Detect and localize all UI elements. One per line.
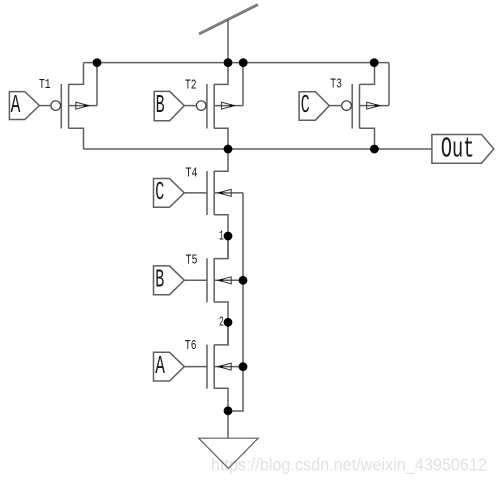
junction dot T1 bulk at VDD rail — [93, 58, 102, 67]
svg-text:1: 1 — [219, 230, 224, 245]
junction dot VDD drop / T2 drain — [224, 58, 233, 67]
wire node 1 segment (T4 source to T5 drain) — [227, 236, 229, 258]
wire node 2 segment (T5 source to T6 drain) — [227, 322, 229, 344]
wire T6 source to ground — [227, 411, 229, 438]
T3 gate bubble — [342, 101, 352, 111]
wire T2 bulk to VDD rail — [242, 63, 244, 106]
input flag B (T2 gate) — [154, 91, 184, 120]
input flag A (T1 gate) — [9, 92, 39, 120]
junction dot T2 bulk at VDD rail — [239, 58, 248, 67]
svg-text:T3: T3 — [330, 78, 342, 93]
transistor T5 (NMOS) — [207, 236, 243, 322]
wire input C to T3 gate — [329, 105, 341, 107]
T2 gate bubble — [196, 101, 206, 111]
transistor T6 (NMOS) — [207, 322, 243, 411]
junction dot T3 drain at VDD rail — [370, 58, 379, 67]
input flag B (T5 gate) — [154, 266, 185, 295]
svg-text:A: A — [11, 90, 21, 120]
wire input B to T2 gate — [184, 105, 196, 107]
svg-text:https://blog.csdn.net/weixin_4: https://blog.csdn.net/weixin_43950612 — [211, 455, 487, 476]
node 1 junction dot — [224, 232, 233, 241]
wire input A to T1 gate — [39, 105, 51, 107]
wire input B to T5 gate — [184, 279, 207, 281]
wire VDD drop to rail — [227, 19, 229, 62]
wire NMOS bulk rail — [228, 193, 243, 411]
wire input A to T6 gate — [184, 366, 207, 368]
junction dot T3 source at output rail — [370, 145, 379, 154]
transistor T2 (PMOS) — [207, 63, 243, 149]
svg-text:T6: T6 — [185, 339, 197, 354]
wire T3 bulk to VDD rail — [388, 63, 390, 106]
output flag Out — [432, 135, 494, 164]
junction dot output rail / T2-T4 — [224, 145, 233, 154]
svg-text:T5: T5 — [186, 254, 198, 269]
svg-text:A: A — [155, 351, 165, 381]
svg-text:C: C — [155, 177, 164, 207]
T1 gate bubble — [51, 101, 61, 111]
wire T1 bulk to VDD rail — [96, 63, 98, 106]
node 2 junction dot — [224, 318, 233, 327]
svg-text:T1: T1 — [39, 78, 51, 93]
transistor T3 (PMOS) — [352, 63, 389, 149]
junction dot T6 bulk — [239, 362, 248, 371]
transistor T1 (PMOS) — [61, 63, 97, 149]
junction dot T6 source / bulk rail — [224, 406, 233, 415]
svg-text:Out: Out — [441, 133, 474, 166]
input flag C (T4 gate) — [154, 179, 185, 208]
ground symbol — [199, 438, 259, 468]
wire output rail — [84, 148, 432, 150]
power VDD symbol — [199, 5, 258, 35]
svg-text:C: C — [301, 90, 310, 120]
svg-text:B: B — [156, 90, 165, 120]
junction dot T5 bulk — [239, 276, 248, 285]
transistor T4 (NMOS) — [207, 149, 243, 236]
input flag C (T3 gate) — [299, 92, 329, 121]
wire top VDD rail — [84, 62, 390, 64]
wire input C to T4 gate — [184, 192, 207, 194]
svg-text:B: B — [155, 265, 164, 295]
svg-text:2: 2 — [219, 315, 224, 330]
svg-text:T4: T4 — [186, 167, 198, 182]
svg-text:T2: T2 — [185, 78, 197, 93]
input flag A (T6 gate) — [154, 352, 185, 381]
